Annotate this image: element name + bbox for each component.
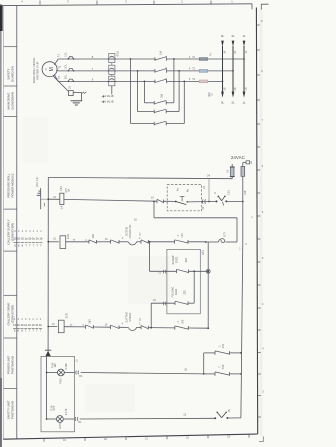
fuse F1 (24VAC) xyxy=(231,164,233,167)
wire photohead run D4 xyxy=(81,373,204,374)
arrow L3 bottom xyxy=(221,92,224,98)
contact OL (rung1) xyxy=(156,200,158,204)
supply feeder L3 xyxy=(222,46,224,92)
svg-text:1OL: 1OL xyxy=(65,52,68,57)
motor frame bond terminal xyxy=(69,91,74,96)
svg-text:FEED: FEED xyxy=(175,289,178,296)
svg-text:24VAC: 24VAC xyxy=(231,155,246,160)
svg-text:5A: 5A xyxy=(68,188,71,191)
drum switch blade xyxy=(175,201,177,203)
connector arrow into lamp box xyxy=(45,351,51,357)
svg-text:1-A: 1-A xyxy=(61,205,64,209)
contact 240 (upper branch) xyxy=(214,351,216,355)
wire 2M row2 right xyxy=(166,111,179,113)
arrow L2 top xyxy=(232,41,235,47)
contact a (rung2) xyxy=(110,240,112,244)
arrow L1 bottom xyxy=(243,92,246,98)
relay coil 2CR xyxy=(58,320,64,333)
svg-text:FU: FU xyxy=(210,52,213,55)
node L1/wire1 xyxy=(243,58,245,60)
node wire2/2M right xyxy=(178,70,180,72)
wire drop rung2-to-innerrung1 xyxy=(149,242,151,271)
node wire1/2M right xyxy=(173,58,175,60)
wire 2M row1 left xyxy=(145,102,155,104)
wire branch lower xyxy=(204,373,215,375)
wire left rail xyxy=(47,177,49,351)
wire inner rung 2 xyxy=(151,302,175,304)
wire bus (rung1 return) xyxy=(153,202,155,218)
wire 2M row1 right xyxy=(166,102,174,104)
float contact (rung2) xyxy=(128,242,136,245)
node L2/wire2 xyxy=(232,70,234,72)
thermal contact F (arc) xyxy=(206,241,218,243)
box entry connector (inner rung1) xyxy=(163,270,166,274)
contact 260 (rung3) xyxy=(85,325,87,329)
svg-text:2OL: 2OL xyxy=(65,63,68,68)
svg-text:9-180: 9-180 xyxy=(65,363,68,370)
svg-text:KNIVES: KNIVES xyxy=(129,312,132,321)
limit switch 240 (rung3) xyxy=(174,326,176,330)
wire 2M left leg a xyxy=(130,59,132,124)
svg-text:LS3: LS3 xyxy=(181,233,184,238)
node rail/rung3 xyxy=(47,326,49,328)
svg-text:ES1: ES1 xyxy=(227,190,230,195)
1M contact pole 3 xyxy=(154,80,156,84)
node upper/right rail xyxy=(240,352,242,354)
svg-text:MOTOR 5 HP: MOTOR 5 HP xyxy=(35,61,39,79)
inline connector (rung1) xyxy=(202,199,205,203)
svg-text:POWER MODULE: POWER MODULE xyxy=(10,173,14,197)
svg-text:240: 240 xyxy=(222,344,225,349)
wire 2M row2 left xyxy=(138,111,155,113)
node wire3/2M right xyxy=(183,81,185,83)
svg-text:260: 260 xyxy=(89,319,92,324)
svg-text:2A: 2A xyxy=(250,161,253,164)
svg-text:2B: 2B xyxy=(234,87,237,90)
wire top rail 24V xyxy=(48,177,232,178)
svg-text:3B: 3B xyxy=(224,87,227,90)
earth ground (motor) xyxy=(71,100,83,102)
crossing mark junction xyxy=(206,269,210,273)
wire lamp feed xyxy=(46,356,48,419)
node rung1/right rail xyxy=(242,201,244,203)
overload heater 3OL xyxy=(68,79,73,81)
motor lead T1 xyxy=(54,59,58,65)
indicator lamp PL2 xyxy=(47,418,57,420)
svg-text:(N-0 1-0): (N-0 1-0) xyxy=(36,177,39,187)
supply feeder L1 xyxy=(243,46,245,92)
emergency stop switch ES1 xyxy=(216,200,218,202)
motor lead T3 xyxy=(54,74,58,81)
arrow L2 bottom xyxy=(232,92,235,98)
svg-text:220: 220 xyxy=(184,290,187,295)
svg-text:GUARD SW: GUARD SW xyxy=(10,66,14,82)
svg-text:2L: 2L xyxy=(232,34,235,38)
wire inner right leg xyxy=(193,271,195,303)
svg-text:2A: 2A xyxy=(234,50,237,53)
overload heater 2OL xyxy=(68,69,73,71)
node lamp2 feed xyxy=(46,418,48,420)
node rung1/tap xyxy=(208,201,210,203)
arrow L1 top xyxy=(243,41,246,47)
svg-text:10B: 10B xyxy=(244,190,247,195)
wire 2M row3 right xyxy=(166,123,184,125)
wire tap rail-to-rung1 xyxy=(208,178,210,201)
indicator lamp PL1 xyxy=(47,372,58,374)
svg-text:3L: 3L xyxy=(221,101,224,105)
contact folding xyxy=(174,301,176,305)
svg-text:1b: 1b xyxy=(39,323,43,327)
contact b (rung3) xyxy=(140,326,142,330)
svg-text:1B: 1B xyxy=(245,87,248,90)
overload heater 1OL xyxy=(68,57,73,59)
svg-text:223: 223 xyxy=(185,258,188,263)
svg-text:3L: 3L xyxy=(221,34,224,38)
supply feeder L2 xyxy=(232,46,234,92)
2M contact pole 2 xyxy=(153,110,155,114)
svg-text:FEED: FEED xyxy=(176,257,179,264)
svg-text:3A: 3A xyxy=(224,50,227,53)
wire rung 3 xyxy=(48,326,57,328)
svg-text:N75: N75 xyxy=(53,405,56,410)
pressure switch B xyxy=(214,417,216,419)
wire 2M right leg c xyxy=(183,81,185,123)
drum switch stem xyxy=(180,196,185,198)
svg-text:M: M xyxy=(49,67,55,71)
wire 2M row3 left xyxy=(131,123,155,125)
contact 260 (rung2) xyxy=(88,240,90,244)
contact LS3 xyxy=(174,240,176,244)
contact screw feed xyxy=(176,270,178,274)
svg-text:1A: 1A xyxy=(245,50,248,53)
wire phase 1 xyxy=(58,58,155,60)
node wire1/2M xyxy=(130,58,132,60)
svg-text:(B): (B) xyxy=(228,409,231,412)
node lower/right rail xyxy=(240,373,242,375)
wire riser rung3-to-inner2 xyxy=(150,303,152,328)
wire photohead run D1 xyxy=(80,417,214,420)
svg-text:TDB: TDB xyxy=(222,364,225,369)
drum switch box C2 xyxy=(167,185,201,211)
wire 2M left leg b xyxy=(137,71,139,112)
fuse block FU1 (disconnect) xyxy=(111,54,113,86)
node D4/branch xyxy=(203,373,205,375)
node rail/rung1 xyxy=(47,198,49,200)
node lamp1 feed xyxy=(46,372,48,374)
wire 2M right leg b xyxy=(178,71,180,112)
svg-text:3OL: 3OL xyxy=(65,74,68,79)
2M contact pole 3 xyxy=(153,122,155,126)
motor lead T4 (frame bond) xyxy=(53,76,69,92)
wire 2M left leg c xyxy=(144,81,146,102)
terminal box (gallery relays) xyxy=(167,249,200,313)
svg-text:1CR: 1CR xyxy=(66,234,70,239)
svg-text:FWD: FWD xyxy=(60,378,63,384)
terminal D1 xyxy=(75,417,78,421)
lamp terminal box xyxy=(41,356,75,431)
svg-text:SLOWDOWN: SLOWDOWN xyxy=(10,92,14,110)
bond stub below fuse block xyxy=(111,86,113,95)
svg-text:PHOTOHEAD: PHOTOHEAD xyxy=(10,401,14,419)
box entry connector (inner rung2) xyxy=(163,302,166,306)
node inner1/drop xyxy=(207,270,209,272)
node inner1/leg xyxy=(193,270,195,272)
arrow L3 top xyxy=(221,41,224,47)
node rung3/riser xyxy=(150,327,152,329)
node rung2/drop xyxy=(149,241,151,243)
terminal D4 xyxy=(76,371,79,375)
wire 2M right leg a xyxy=(173,59,175,103)
1M contact pole 1 xyxy=(154,57,156,61)
svg-text:4-176: 4-176 xyxy=(65,408,68,415)
svg-text:ETI: ETI xyxy=(223,232,227,236)
svg-text:2L: 2L xyxy=(232,101,235,105)
wire branch riser xyxy=(203,353,205,374)
svg-text:1B: 1B xyxy=(69,86,72,89)
wire rung 2 xyxy=(48,241,59,243)
wire inner rung 1 xyxy=(150,270,177,272)
contact b (rung2) xyxy=(140,240,142,244)
wire rung 1 xyxy=(48,198,60,200)
node rung3/drop xyxy=(207,327,209,329)
svg-text:1b: 1b xyxy=(39,237,43,241)
node rung2/F xyxy=(205,241,207,243)
svg-text:2CR: 2CR xyxy=(64,313,68,318)
1M contact pole 2 xyxy=(154,69,156,73)
svg-text:1L: 1L xyxy=(243,101,246,105)
earth ground (control) xyxy=(41,198,49,200)
float contact (rung3) xyxy=(128,327,136,330)
motor M1 xyxy=(42,62,57,77)
svg-text:GRN: GRN xyxy=(59,423,62,429)
wire right rail xyxy=(242,176,244,242)
svg-text:PHOTOHEAD: PHOTOHEAD xyxy=(10,356,14,374)
fuse F2 (24VAC) xyxy=(241,166,245,176)
node wire2/2M xyxy=(137,70,139,72)
relay coil 1CR xyxy=(60,236,66,249)
svg-text:(FU): (FU) xyxy=(115,51,119,56)
circuit breaker CB1 xyxy=(60,193,64,204)
svg-text:1L: 1L xyxy=(243,34,246,38)
branch fuses FU2 xyxy=(199,58,207,61)
wire branch upper xyxy=(204,352,215,354)
svg-text:CONVEYOR: CONVEYOR xyxy=(129,224,132,238)
svg-text:260: 260 xyxy=(92,234,95,239)
node rung1/bus xyxy=(153,201,155,203)
wire phase 3 xyxy=(58,80,155,82)
node rail/rung2 xyxy=(47,241,49,243)
node L3/wire3 xyxy=(222,81,224,83)
contact TDB (lower branch) xyxy=(214,372,216,376)
2M contact pole 1 xyxy=(153,101,155,105)
motor lead T2 xyxy=(56,70,58,71)
contact a (rung3) xyxy=(110,325,112,329)
wire phase 2 xyxy=(58,70,155,72)
svg-text:1A: 1A xyxy=(226,169,229,172)
svg-text:240: 240 xyxy=(181,319,184,324)
svg-text:180: 180 xyxy=(54,363,57,368)
wire drop rung2-to-rung3 xyxy=(207,242,209,328)
node wire3/2M xyxy=(144,81,146,83)
svg-text:CB1: CB1 xyxy=(60,186,63,191)
